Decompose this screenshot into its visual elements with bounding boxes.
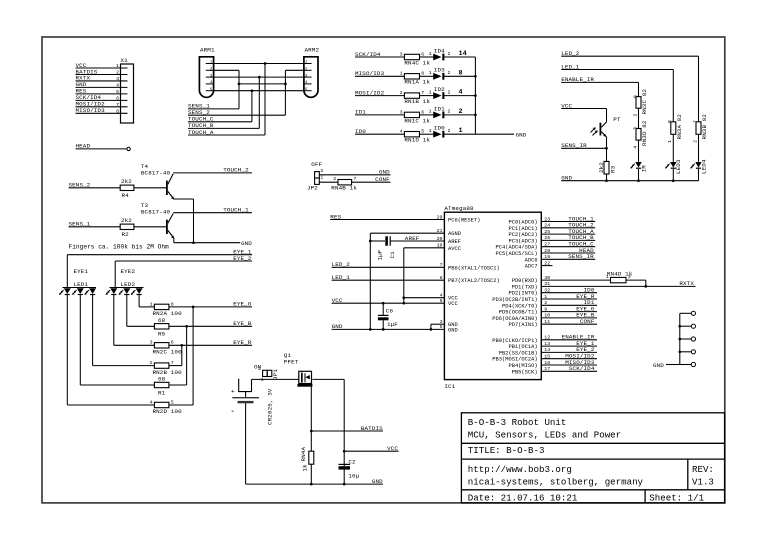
wire base bbox=[134, 226, 166, 228]
wire bbox=[420, 133, 434, 135]
svg-text:EYE2: EYE2 bbox=[121, 268, 136, 275]
svg-text:PB3(MOSI/OC2A): PB3(MOSI/OC2A) bbox=[492, 357, 537, 363]
IC IC1 ATmega88 bbox=[444, 212, 541, 379]
capacitor C1 1uF bbox=[385, 236, 388, 245]
resistor RN4C bbox=[404, 54, 419, 59]
svg-text:2k2: 2k2 bbox=[121, 178, 132, 185]
node GND (IR rail) bbox=[561, 180, 698, 182]
svg-text:MOSI/ID2: MOSI/ID2 bbox=[355, 89, 385, 96]
wire ID bus bbox=[474, 57, 476, 134]
resistor RN1C bbox=[404, 112, 419, 117]
diode ID3 bbox=[433, 73, 441, 80]
pad bbox=[680, 325, 691, 327]
svg-text:BATDIS: BATDIS bbox=[361, 425, 383, 432]
junction bbox=[678, 325, 681, 328]
svg-text:RES: RES bbox=[330, 213, 341, 220]
wire vertical TOUCH_B bbox=[258, 77, 260, 128]
wire ARM1 row2 stub bbox=[214, 69, 239, 71]
X1 pin 1 wire VCC bbox=[76, 67, 128, 69]
node HEAD bbox=[76, 148, 128, 150]
wire LED_2 down bbox=[698, 56, 700, 122]
svg-text:CR2025, 3V: CR2025, 3V bbox=[266, 388, 273, 425]
battery CR2025 bbox=[239, 379, 252, 392]
node ID1 bbox=[541, 304, 597, 306]
capacitor C2 10u bbox=[339, 463, 351, 465]
X1 pin 3 wire RXTX bbox=[76, 80, 128, 82]
svg-text:3: 3 bbox=[150, 340, 153, 346]
node CONF bbox=[541, 323, 597, 325]
svg-text:SENS_1: SENS_1 bbox=[69, 221, 91, 228]
svg-text:RN1D 1k: RN1D 1k bbox=[404, 137, 430, 144]
svg-text:2: 2 bbox=[116, 69, 119, 75]
node SENS_IR bbox=[561, 147, 606, 149]
wire VCC to PT bbox=[606, 109, 608, 122]
svg-text:68: 68 bbox=[158, 376, 166, 383]
svg-text:1: 1 bbox=[429, 109, 432, 115]
svg-text:1µF: 1µF bbox=[387, 321, 398, 328]
pad bbox=[680, 364, 691, 366]
node LED_2 (pin7) bbox=[332, 266, 445, 268]
svg-text:PC6(RESET): PC6(RESET) bbox=[448, 218, 480, 224]
svg-text:7: 7 bbox=[692, 120, 698, 123]
node SENS_2 bbox=[188, 114, 285, 116]
svg-text:LED2: LED2 bbox=[121, 281, 136, 288]
svg-text:GND: GND bbox=[653, 362, 664, 369]
svg-text:RXTX: RXTX bbox=[679, 280, 694, 287]
wire bbox=[420, 95, 434, 97]
svg-text:JP2: JP2 bbox=[307, 185, 318, 192]
svg-text:8: 8 bbox=[667, 120, 673, 123]
svg-text:ID2: ID2 bbox=[434, 86, 445, 93]
svg-text:nicai-systems, stolberg, germa: nicai-systems, stolberg, germany bbox=[468, 477, 644, 488]
node LED_2 bbox=[561, 55, 698, 57]
wire EYE_2 down to LED2 rail bbox=[114, 261, 116, 288]
svg-text:6: 6 bbox=[632, 95, 638, 98]
svg-text:ATmega88: ATmega88 bbox=[444, 205, 474, 212]
X1 pin 5 wire RES bbox=[76, 93, 128, 95]
LED LED2 element bbox=[123, 288, 130, 294]
diode ID0 bbox=[433, 131, 441, 138]
wire RN4D right bbox=[626, 279, 646, 281]
wire bbox=[352, 181, 391, 183]
svg-text:R2: R2 bbox=[122, 231, 130, 238]
junction bbox=[258, 76, 261, 79]
LED LED2 element bbox=[136, 288, 143, 294]
svg-text:7: 7 bbox=[116, 102, 119, 108]
node SENS_1 bbox=[188, 108, 239, 110]
svg-text:TOUCH_A: TOUCH_A bbox=[188, 129, 214, 136]
resistor RN2B bbox=[154, 363, 169, 368]
node SENS_2 bbox=[69, 187, 121, 189]
node EYE_G bbox=[541, 311, 597, 313]
svg-text:2: 2 bbox=[258, 366, 261, 372]
node GND (T3/T4) bbox=[174, 242, 240, 244]
resistor RN2C bbox=[154, 343, 169, 348]
svg-text:R1: R1 bbox=[158, 389, 166, 396]
node GND (battery rail) bbox=[246, 483, 383, 485]
wire LED cathode down bbox=[79, 295, 81, 385]
node EYE_2 bbox=[541, 351, 597, 353]
svg-text:1: 1 bbox=[400, 71, 403, 77]
svg-text:Sheet: 1/1: Sheet: 1/1 bbox=[649, 493, 704, 504]
junction bbox=[474, 114, 477, 117]
X1 pin 4 wire GND bbox=[76, 86, 128, 88]
svg-text:Fingers ca. 100k bis 2M Ohm: Fingers ca. 100k bis 2M Ohm bbox=[69, 243, 170, 250]
svg-text:R4: R4 bbox=[122, 192, 130, 199]
node RES bbox=[330, 219, 444, 221]
svg-text:TOUCH_2: TOUCH_2 bbox=[223, 167, 249, 174]
svg-text:2: 2 bbox=[448, 128, 451, 134]
svg-text:ENABLE_IR: ENABLE_IR bbox=[561, 76, 594, 83]
svg-text:4: 4 bbox=[400, 129, 403, 135]
svg-text:PT: PT bbox=[613, 116, 621, 123]
svg-text:PD6(OC0A/AIN0): PD6(OC0A/AIN0) bbox=[492, 316, 537, 322]
resistor RN1B bbox=[404, 93, 419, 98]
node EYE_G bbox=[169, 306, 252, 308]
node VCC bbox=[343, 450, 346, 453]
svg-text:RN2A 100: RN2A 100 bbox=[153, 310, 183, 317]
svg-text:R5: R5 bbox=[158, 331, 166, 338]
svg-text:BC817-40: BC817-40 bbox=[141, 208, 171, 215]
resistor R1 bbox=[154, 382, 169, 387]
X1 pin 8 wire MISO/ID3 bbox=[76, 112, 128, 114]
svg-text:MCU, Sensors, LEDs and Power: MCU, Sensors, LEDs and Power bbox=[468, 430, 621, 441]
svg-text:X1: X1 bbox=[121, 57, 129, 64]
svg-text:BC817-40: BC817-40 bbox=[141, 169, 171, 176]
resistor RN3A bbox=[671, 122, 676, 135]
node SCK/ID4 bbox=[541, 370, 597, 372]
wire pin30 to RN4D bbox=[541, 279, 610, 281]
node ID0 wire bbox=[355, 133, 404, 135]
svg-text:RN1B 1k: RN1B 1k bbox=[404, 98, 430, 105]
X1 pin 6 wire SCK/ID4 bbox=[76, 99, 128, 101]
wire bbox=[443, 75, 476, 77]
svg-text:2: 2 bbox=[632, 114, 638, 117]
svg-text:MISO/ID3: MISO/ID3 bbox=[355, 70, 385, 77]
phototransistor PT bbox=[600, 123, 602, 136]
wire bbox=[672, 134, 674, 162]
wire AVCC pin18 bbox=[404, 247, 445, 249]
junction GND rail bbox=[672, 179, 675, 182]
svg-text:EYE_R: EYE_R bbox=[233, 339, 252, 346]
svg-text:LED4: LED4 bbox=[700, 159, 707, 174]
svg-text:RN3D 82: RN3D 82 bbox=[641, 120, 648, 146]
junction bbox=[264, 62, 267, 65]
wire bbox=[420, 75, 434, 77]
title block bbox=[461, 413, 724, 503]
junction bbox=[678, 338, 681, 341]
pad bbox=[680, 312, 691, 314]
wire ARM row4 bbox=[239, 83, 285, 85]
svg-text:EYE_2: EYE_2 bbox=[233, 255, 252, 262]
svg-text:RN2B 100: RN2B 100 bbox=[153, 369, 183, 376]
resistor R2 2k2 bbox=[120, 224, 134, 229]
svg-text:GND: GND bbox=[516, 132, 527, 139]
resistor R3 bbox=[604, 161, 609, 174]
resistor RN1A bbox=[404, 74, 419, 79]
svg-text:1: 1 bbox=[429, 89, 432, 95]
junction bbox=[284, 83, 287, 86]
wire T4 emitter to gnd bbox=[174, 198, 194, 200]
node TOUCH_1 bbox=[541, 221, 595, 223]
svg-text:PC4(ADC4/SDA): PC4(ADC4/SDA) bbox=[496, 245, 538, 251]
node TOUCH_A bbox=[541, 233, 595, 235]
node VCC (pin6) bbox=[332, 302, 445, 304]
svg-text:1: 1 bbox=[116, 63, 119, 69]
node TOUCH_C bbox=[188, 121, 252, 123]
wire LED cathode down bbox=[66, 295, 68, 405]
svg-text:2k2: 2k2 bbox=[121, 217, 132, 224]
svg-text:1k: 1k bbox=[302, 464, 309, 472]
svg-text:PD3(OC2B/INT1): PD3(OC2B/INT1) bbox=[492, 297, 537, 303]
svg-text:4: 4 bbox=[116, 82, 119, 88]
svg-text:RN4B 1k: RN4B 1k bbox=[331, 184, 357, 191]
wire bbox=[420, 56, 434, 58]
wire EYE_1 down to LED1 rail bbox=[66, 255, 68, 288]
svg-text:PD0(RXD): PD0(RXD) bbox=[512, 278, 538, 284]
svg-text:2k2: 2k2 bbox=[598, 162, 605, 173]
node LED_1 (pin8) bbox=[332, 279, 445, 281]
svg-text:2: 2 bbox=[320, 168, 323, 174]
node GND (JP2) bbox=[319, 174, 390, 176]
resistor RN3C bbox=[636, 97, 641, 109]
node VCC (IR) bbox=[561, 108, 606, 110]
node SENS_1 bbox=[69, 226, 121, 228]
svg-text:SCK/ID4: SCK/ID4 bbox=[569, 365, 595, 372]
diode ID4 bbox=[433, 54, 441, 61]
svg-text:ID1: ID1 bbox=[355, 109, 366, 116]
wire LED cathode down bbox=[92, 295, 94, 366]
wire ARM row3 bbox=[214, 76, 304, 78]
svg-text:VCC: VCC bbox=[332, 297, 343, 304]
svg-text:+: + bbox=[231, 388, 235, 395]
node EYE_2 bbox=[115, 260, 252, 262]
node ID1 wire bbox=[355, 114, 404, 116]
node GND (ID bus) bbox=[475, 133, 514, 135]
svg-text:TOUCH_1: TOUCH_1 bbox=[223, 206, 249, 213]
svg-text:PD4(XCK/T0): PD4(XCK/T0) bbox=[502, 303, 538, 309]
svg-text:RN3B 82: RN3B 82 bbox=[701, 114, 708, 140]
svg-text:PD5(OC0B/T1): PD5(OC0B/T1) bbox=[499, 310, 538, 316]
node TOUCH_2 bbox=[541, 227, 595, 229]
junction bbox=[678, 350, 681, 353]
junction bbox=[238, 83, 241, 86]
svg-text:PC3(ADC3): PC3(ADC3) bbox=[508, 238, 537, 244]
wire base bbox=[134, 187, 166, 189]
resistor R5 bbox=[154, 324, 169, 329]
wire ENABLE_IR down bbox=[638, 82, 640, 96]
svg-text:http://www.bob3.org: http://www.bob3.org bbox=[468, 464, 572, 475]
svg-text:GND: GND bbox=[448, 327, 458, 333]
wire bbox=[672, 169, 674, 181]
svg-text:EYE1: EYE1 bbox=[74, 268, 89, 275]
node TOUCH_A bbox=[188, 134, 265, 136]
svg-text:PD1(TXD): PD1(TXD) bbox=[512, 284, 538, 290]
wire bbox=[443, 114, 476, 116]
svg-text:AGND: AGND bbox=[448, 231, 461, 237]
svg-text:PB1(OC1A): PB1(OC1A) bbox=[508, 344, 537, 350]
svg-text:TITLE: B-O-B-3: TITLE: B-O-B-3 bbox=[468, 445, 545, 456]
svg-text:RN2D 100: RN2D 100 bbox=[153, 408, 183, 415]
LED LED2 rail bbox=[110, 287, 144, 289]
node EYE_R bbox=[169, 344, 252, 346]
wire ARM2 row2 stub bbox=[285, 69, 304, 71]
LED LED4 bbox=[695, 162, 701, 168]
svg-text:RN2C 100: RN2C 100 bbox=[153, 349, 183, 356]
svg-text:ARM2: ARM2 bbox=[305, 47, 320, 54]
pad bbox=[680, 351, 691, 353]
svg-text:ADC7: ADC7 bbox=[525, 264, 538, 270]
svg-text:10µ: 10µ bbox=[348, 473, 359, 480]
wire pad bus bbox=[679, 313, 681, 364]
svg-text:7: 7 bbox=[353, 176, 356, 182]
svg-text:PB0(CLKO/ICP1): PB0(CLKO/ICP1) bbox=[492, 338, 537, 344]
node TOUCH_B bbox=[541, 239, 595, 241]
svg-text:1: 1 bbox=[261, 377, 264, 383]
svg-text:EYE_B: EYE_B bbox=[233, 320, 252, 327]
svg-text:1: 1 bbox=[429, 128, 432, 134]
svg-text:C2: C2 bbox=[348, 459, 356, 466]
X1 pin 7 wire MOSI/ID2 bbox=[76, 106, 128, 108]
resistor RN1D bbox=[404, 132, 419, 137]
wire bbox=[420, 114, 434, 116]
wire LED_1 down bbox=[672, 70, 674, 122]
svg-text:AREF: AREF bbox=[448, 239, 461, 245]
svg-text:IR: IR bbox=[640, 165, 647, 173]
svg-text:3: 3 bbox=[632, 127, 638, 130]
wire LED cathode down bbox=[113, 295, 115, 345]
junction SENS_IR bbox=[605, 147, 608, 150]
svg-text:AVCC: AVCC bbox=[448, 246, 461, 252]
wire bbox=[638, 169, 640, 181]
svg-text:RN3C 82: RN3C 82 bbox=[641, 89, 648, 115]
svg-text:ADC6: ADC6 bbox=[525, 257, 538, 263]
svg-text:GND: GND bbox=[241, 240, 252, 247]
svg-text:HEAD: HEAD bbox=[76, 143, 91, 150]
wire T3 emitter to gnd bbox=[173, 238, 175, 243]
junction bbox=[474, 75, 477, 78]
wire vertical SENS_1 bbox=[238, 70, 240, 109]
svg-text:ID1: ID1 bbox=[434, 105, 445, 112]
svg-text:2: 2 bbox=[400, 90, 403, 96]
svg-text:LED_2: LED_2 bbox=[561, 50, 580, 57]
wire vertical SENS_2 bbox=[284, 70, 286, 115]
svg-text:PD7(AIN1): PD7(AIN1) bbox=[508, 322, 537, 328]
diode ID1 bbox=[433, 112, 441, 119]
svg-text:LED1: LED1 bbox=[74, 281, 89, 288]
svg-text:1: 1 bbox=[606, 274, 609, 280]
node RXTX bbox=[541, 285, 695, 287]
wire R1 up to EYE_B bbox=[169, 384, 187, 386]
svg-text:LED3: LED3 bbox=[675, 159, 682, 174]
node ID0 bbox=[541, 292, 597, 294]
junction bbox=[251, 89, 254, 92]
svg-text:RN4C 1k: RN4C 1k bbox=[404, 59, 430, 66]
svg-text:3: 3 bbox=[116, 76, 119, 82]
svg-text:68: 68 bbox=[158, 317, 166, 324]
svg-text:PD2(INT0): PD2(INT0) bbox=[508, 291, 537, 297]
svg-text:1: 1 bbox=[150, 301, 153, 307]
svg-text:LED_1: LED_1 bbox=[332, 274, 351, 281]
border frame bbox=[42, 37, 725, 503]
capacitor C6 1uF bbox=[382, 303, 384, 315]
wire GND pin3 bbox=[431, 323, 445, 325]
svg-text:3: 3 bbox=[400, 51, 403, 57]
wire AREF bbox=[390, 240, 444, 242]
wire bbox=[638, 108, 640, 128]
svg-text:V1.3: V1.3 bbox=[692, 477, 714, 488]
svg-text:3: 3 bbox=[400, 109, 403, 115]
svg-text:CONF: CONF bbox=[580, 318, 595, 325]
connector X1 bbox=[121, 64, 134, 123]
svg-text:1: 1 bbox=[667, 140, 673, 143]
wire VCC pin4 bbox=[404, 297, 445, 299]
connector ARM2 bbox=[304, 57, 318, 98]
svg-text:1: 1 bbox=[429, 51, 432, 57]
LED LED1 element bbox=[64, 288, 71, 294]
svg-text:GND: GND bbox=[332, 323, 343, 330]
svg-text:SCK/ID4: SCK/ID4 bbox=[355, 51, 381, 58]
svg-text:ID0: ID0 bbox=[355, 128, 366, 135]
wire bbox=[698, 169, 700, 181]
wire pin22 stub bbox=[541, 265, 552, 267]
junction bbox=[474, 94, 477, 97]
svg-text:AREF: AREF bbox=[405, 235, 420, 242]
svg-text:3: 3 bbox=[628, 274, 631, 280]
svg-text:2: 2 bbox=[692, 140, 698, 143]
svg-text:SENS_IR: SENS_IR bbox=[568, 253, 594, 260]
svg-text:8: 8 bbox=[116, 108, 119, 114]
svg-text:2: 2 bbox=[150, 360, 153, 366]
wire bbox=[443, 133, 476, 135]
wire vertical TOUCH_A bbox=[264, 64, 266, 136]
svg-text:ID3: ID3 bbox=[434, 67, 445, 74]
node MISO/ID3 wire bbox=[355, 75, 404, 77]
svg-text:PB2(SS/OC1B): PB2(SS/OC1B) bbox=[499, 350, 538, 356]
svg-text:4: 4 bbox=[150, 399, 153, 405]
node MOSI/ID2 wire bbox=[355, 95, 404, 97]
svg-text:2: 2 bbox=[333, 176, 336, 182]
svg-text:1: 1 bbox=[429, 70, 432, 76]
svg-text:ARM1: ARM1 bbox=[200, 47, 215, 54]
svg-text:OFF: OFF bbox=[311, 161, 322, 168]
svg-text:C1: C1 bbox=[389, 251, 396, 259]
svg-text:B-O-B-3 Robot Unit: B-O-B-3 Robot Unit bbox=[468, 417, 567, 428]
svg-text:VCC: VCC bbox=[561, 102, 572, 109]
node TOUCH_C bbox=[541, 246, 595, 248]
svg-text:1µF: 1µF bbox=[377, 249, 384, 260]
resistor RN4A 1k bbox=[309, 451, 314, 464]
svg-text:PB5(SCK): PB5(SCK) bbox=[512, 369, 538, 375]
wire battery minus down bbox=[245, 403, 247, 484]
svg-text:VCC: VCC bbox=[387, 445, 398, 452]
LED IR bbox=[635, 162, 641, 168]
diode ID2 bbox=[433, 92, 441, 99]
LED LED1 element bbox=[77, 288, 84, 294]
svg-text:CONF: CONF bbox=[375, 176, 390, 183]
node HEAD bbox=[541, 252, 595, 254]
svg-text:RN1C 1k: RN1C 1k bbox=[404, 117, 430, 124]
wire PT emitter down bbox=[606, 137, 608, 162]
svg-text:4: 4 bbox=[632, 146, 638, 149]
svg-text:REV:: REV: bbox=[692, 464, 714, 475]
svg-text:2: 2 bbox=[448, 109, 451, 115]
wire LED cathode down bbox=[126, 295, 128, 326]
svg-text:SENS_2: SENS_2 bbox=[69, 182, 91, 189]
svg-text:MISO/ID3: MISO/ID3 bbox=[76, 107, 106, 114]
LED LED2 element bbox=[110, 288, 117, 294]
resistor RN2A bbox=[154, 304, 169, 309]
